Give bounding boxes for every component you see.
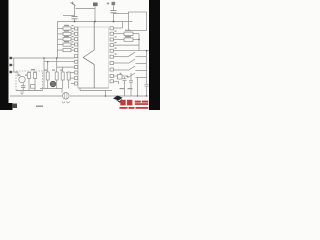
- wire box to bus: [43, 58, 45, 88]
- left resistor bank bus: [57, 22, 59, 58]
- component M1 (bottom round): [63, 93, 70, 100]
- ground rail bottom: [10, 95, 62, 97]
- plus marks right cluster: [119, 73, 129, 78]
- switch S2: [114, 62, 129, 64]
- IC left pin boxes: [75, 27, 78, 85]
- capacitor C5 (right cluster): [118, 75, 123, 80]
- wire top rail A: [76, 8, 96, 10]
- switch S1: [114, 56, 129, 58]
- resistor R7 (vertical): [34, 73, 37, 79]
- wire row p9: [114, 80, 119, 82]
- wire down: [137, 78, 139, 97]
- watermark logo dark cap: [113, 96, 123, 101]
- resistor R10: [55, 72, 58, 80]
- wire input row 1: [12, 57, 75, 59]
- preamp dashed box: [16, 71, 43, 91]
- wire row p2: [114, 33, 125, 35]
- wire pin row lower 3: [57, 66, 75, 68]
- wire pin row lower 2: [44, 61, 75, 63]
- resistor R9: [46, 72, 49, 80]
- resistor R1 row: [58, 28, 64, 30]
- black bar right: [149, 0, 160, 110]
- ground symbol G1: [20, 92, 24, 95]
- wire to top right box: [114, 13, 129, 15]
- input terminal J2: [10, 64, 12, 66]
- wire input row 2: [12, 64, 14, 66]
- wire input vertical: [13, 58, 15, 72]
- bottom wires under left area: [40, 88, 62, 90]
- junction dots: [43, 21, 147, 97]
- IC U1 body: [78, 26, 109, 28]
- wire main top rail: [58, 21, 129, 23]
- bus right: [146, 51, 148, 84]
- capacitor C6: [129, 73, 133, 96]
- wire under IC: [79, 88, 81, 91]
- resistor R11: [61, 72, 64, 80]
- wire row p5 to edge: [114, 50, 150, 52]
- wire right rail drop: [122, 22, 124, 29]
- wire top rail B: [63, 15, 75, 17]
- ground bus in box: [16, 90, 43, 92]
- tiny gray text specks (labels): [18, 25, 132, 107]
- wire row p3: [114, 39, 125, 41]
- capacitor C7: [145, 84, 149, 86]
- transistor Q2: [50, 81, 56, 87]
- switch S3: [114, 69, 129, 71]
- wire pin row lower 4: [66, 72, 75, 74]
- IC internal amp line: [93, 22, 95, 51]
- resistor R12: [67, 72, 70, 80]
- resistor R6 (vertical): [28, 73, 31, 79]
- resistor R5 row: [58, 49, 64, 51]
- transistor Q1: [19, 76, 25, 82]
- resistor R8: [31, 85, 36, 89]
- wire pin row lower 6: [71, 83, 75, 85]
- black bar left: [0, 0, 9, 110]
- resistor R4 row: [58, 44, 64, 46]
- input terminal J3: [10, 71, 12, 73]
- capacitor C2 (top right, polarized): [107, 2, 110, 5]
- background: [0, 0, 160, 110]
- capacitor C4: [21, 86, 26, 88]
- wire input row 3: [12, 71, 18, 73]
- component X1 (top middle blob): [93, 3, 98, 7]
- input terminal J1: [10, 57, 12, 59]
- capacitor C1 (top left, polarized): [74, 5, 76, 16]
- wire pin row lower 5: [70, 77, 75, 79]
- IC right pin boxes: [110, 27, 114, 83]
- resistor R3 row: [58, 38, 64, 40]
- switch S4: [114, 75, 129, 77]
- watermark red text: [120, 100, 149, 109]
- resistor R2 row: [58, 33, 64, 35]
- vertical join: [138, 34, 140, 51]
- wire row p4: [114, 44, 140, 46]
- top-right box U2: [129, 12, 147, 31]
